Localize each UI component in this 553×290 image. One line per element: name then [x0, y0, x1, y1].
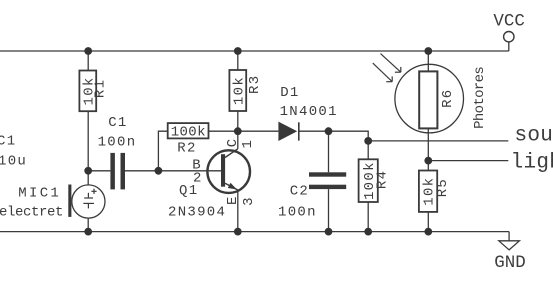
svg-text:sound: sound: [515, 125, 553, 148]
junction mic bottom: [84, 228, 92, 236]
resistor R5: [419, 171, 451, 212]
wire mic top stub: [87, 171, 89, 185]
wire R3 bottom stub: [237, 111, 239, 131]
svg-text:GND: GND: [494, 253, 526, 273]
wire R6 top stub: [427, 51, 429, 71]
wire C1 right plate to node: [125, 170, 158, 172]
wire base: [158, 170, 221, 172]
svg-text:VCC: VCC: [493, 12, 525, 32]
wire R1 bottom to node: [87, 111, 89, 171]
capacitor C2 100n: [278, 172, 346, 220]
capacitor C1 100n: [98, 115, 137, 189]
resistor R4: [359, 159, 391, 202]
resistor R1: [79, 71, 108, 112]
svg-text:100n: 100n: [98, 135, 137, 151]
svg-text:R5: R5: [435, 178, 451, 197]
wire R2 right pin: [209, 130, 238, 132]
photoresistor R6: [373, 54, 488, 133]
wire emitter: [237, 190, 239, 232]
wire R4 bottom stub: [367, 202, 369, 232]
wire R1 top stub: [87, 51, 89, 71]
junction light tap: [424, 157, 432, 165]
wire C2 top: [328, 131, 330, 172]
junction R5 bottom: [424, 228, 432, 236]
svg-text:Photores: Photores: [472, 67, 488, 129]
junction R1 top: [84, 47, 92, 55]
wire mic bottom stub: [87, 218, 89, 232]
svg-text:2N3904: 2N3904: [168, 204, 226, 220]
ground GND: [494, 241, 526, 273]
R6 light arrows: [373, 54, 401, 82]
svg-text:R1: R1: [93, 79, 109, 98]
wire R3 top stub: [237, 51, 239, 70]
svg-text:light: light: [511, 151, 553, 174]
wire VCC drop: [508, 42, 510, 51]
wire diode cathode: [299, 130, 329, 132]
svg-text:R2: R2: [177, 140, 196, 156]
svg-text:C1: C1: [0, 133, 16, 149]
junction R4 bottom: [364, 228, 372, 236]
wire light line: [428, 160, 508, 162]
svg-text:Q1: Q1: [179, 183, 198, 199]
junction node base R2: [155, 167, 163, 175]
junction node base left: [84, 167, 92, 175]
wire node to C1 left plate: [88, 170, 110, 172]
junction R3 top: [234, 47, 242, 55]
capacitor C1 10u (cut off at left edge): [0, 133, 27, 169]
microphone MIC1 electret: [0, 185, 105, 221]
resistor R3: [229, 70, 263, 111]
svg-text:R3: R3: [247, 75, 263, 94]
svg-text:E: E: [225, 195, 241, 205]
junction emitter bottom: [234, 228, 242, 236]
svg-text:MIC1: MIC1: [18, 186, 61, 202]
junction R6 top: [424, 47, 432, 55]
wire C2 bottom: [328, 189, 330, 232]
wire sound line: [368, 140, 508, 142]
svg-text:electret: electret: [0, 205, 63, 221]
power VCC: [493, 12, 525, 42]
wire top VCC rail: [0, 50, 509, 52]
diode D1 1N4001: [278, 85, 337, 141]
resistor R2: [168, 123, 209, 156]
wire collector: [237, 131, 239, 149]
MIC1 internal capacitor and plus: [83, 189, 96, 209]
svg-text:100n: 100n: [278, 204, 317, 220]
svg-text:1: 1: [240, 139, 256, 149]
net label sound: [515, 125, 553, 148]
svg-text:C: C: [225, 138, 241, 148]
svg-text:R4: R4: [374, 170, 390, 189]
svg-text:R6: R6: [440, 88, 456, 107]
wire GND drop: [508, 232, 510, 241]
junction collector node: [234, 127, 242, 135]
wire R6 bottom to R5: [427, 128, 429, 170]
wire bottom GND rail: [0, 231, 509, 233]
wire diode anode: [238, 130, 279, 132]
junction diode cathode node: [325, 127, 333, 135]
transistor Q1 2N3904: [168, 138, 257, 221]
wire R5 bottom stub: [427, 212, 429, 232]
svg-text:10u: 10u: [0, 154, 27, 170]
svg-text:C2: C2: [290, 183, 309, 199]
svg-text:3: 3: [241, 196, 257, 206]
junction C2 bottom: [325, 228, 333, 236]
net label light: [511, 151, 553, 174]
junction sound tap: [364, 137, 372, 145]
wire node to R4 column: [329, 131, 369, 159]
wire R2 left pin down: [158, 131, 167, 171]
svg-text:10k: 10k: [232, 76, 248, 105]
svg-text:D1: D1: [280, 85, 299, 101]
svg-text:C1: C1: [108, 115, 127, 131]
svg-text:1N4001: 1N4001: [280, 104, 338, 120]
svg-text:100k: 100k: [171, 125, 206, 141]
